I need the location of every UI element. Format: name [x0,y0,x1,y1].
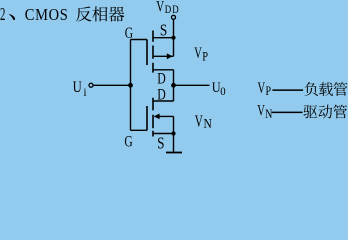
junction dot input node [128,83,133,88]
junction dot output node [171,83,176,88]
svg-text:U: U [73,79,82,96]
svg-text:S: S [157,134,164,153]
junction dot PMOS source / V_DD node [171,36,175,40]
transistor V_N (NMOS) gate bar [146,106,148,130]
svg-text:V: V [258,79,266,97]
svg-text:G: G [124,134,132,151]
wire PMOS drain stub [153,70,174,86]
svg-text:P: P [266,85,272,98]
svg-text:S: S [160,21,167,40]
svg-text:N: N [204,116,212,131]
wire NMOS source stub [153,133,174,135]
svg-text:D: D [157,70,166,87]
wire NMOS drain stub [153,85,174,101]
terminal circle V_DD [172,15,176,19]
title "反相器" [76,6,91,21]
wire trunk to PMOS gate [131,39,148,41]
wire PMOS source stub [153,37,174,39]
wire PMOS substrate arrow stub to source [154,38,174,57]
junction dot NMOS source node [171,131,175,135]
transistor V_P (PMOS) channel segments [152,31,154,73]
svg-text:N: N [265,108,272,121]
svg-text:G: G [125,26,133,43]
wire NMOS substrate arrow stub to source [155,116,174,133]
NMOS substrate arrowhead (points left) [154,114,160,120]
svg-text:2: 2 [0,6,5,25]
wire trunk to NMOS gate [131,129,148,131]
transistor V_P (PMOS) gate bar [146,40,148,66]
legend dash 1 [272,89,303,91]
svg-text:D: D [157,86,166,103]
svg-text:V: V [195,112,204,131]
transistor V_N (NMOS) channel segments [152,98,154,137]
terminal circle Ui input [89,83,93,87]
legend dash 2 [272,112,303,114]
wire V_DD lead [173,19,175,37]
wire gate trunk [130,40,132,131]
svg-text:V: V [156,0,164,15]
wire input Ui [93,84,130,86]
wire NMOS source lead down [173,134,175,153]
svg-text:DD: DD [165,4,180,16]
svg-text:V: V [194,44,202,62]
PMOS substrate arrowhead (points right) [167,53,173,59]
svg-text:P: P [202,50,208,64]
wire output U0 [174,84,210,86]
source terminal bar [166,152,182,154]
svg-text:0: 0 [220,86,226,99]
svg-text:CMOS: CMOS [25,6,69,24]
svg-text:i: i [84,87,87,100]
svg-text:V: V [257,101,265,119]
